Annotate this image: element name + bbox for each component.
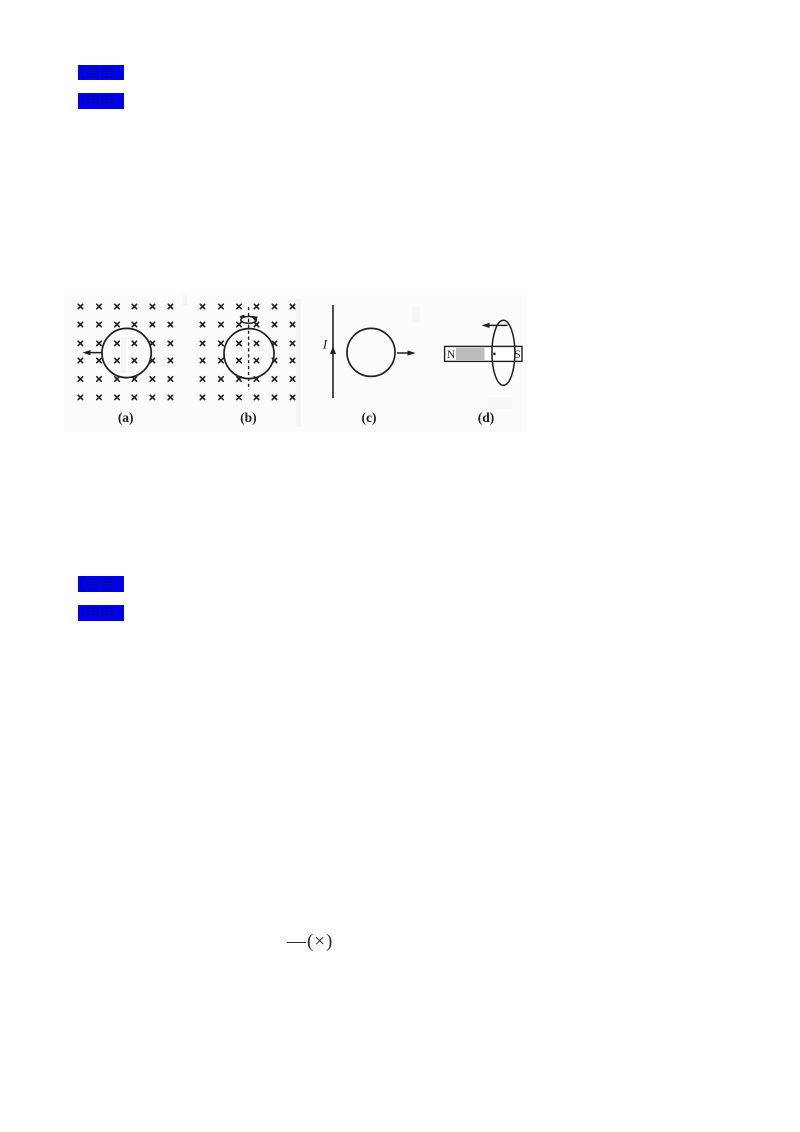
answer button 1 [78,65,124,80]
svg-text:(d): (d) [478,410,495,425]
svg-text:(b): (b) [240,410,257,425]
svg-text:I: I [322,337,328,352]
coil ellipse around magnet (d) [492,320,515,385]
field-into-page crosses, panel (b) [200,304,294,399]
physics figure [64,295,527,432]
conducting loop (c) [347,328,395,376]
magnet N-half shading [456,348,485,360]
velocity arrow (a), pointing left [83,350,103,355]
svg-text:N: N [447,349,456,361]
rotation axis dashed line (b) [248,307,250,390]
rotation arrow ellipse (b) [240,316,258,323]
field-into-page crosses, panel (a) [78,304,172,399]
conducting loop (b) [224,329,274,379]
svg-text:(a): (a) [118,410,134,425]
conducting loop (a) [102,328,151,377]
magnet centre dot [493,353,496,356]
bottom formula mark [287,931,341,953]
straight current wire (c) [332,305,334,398]
explain button 1 [78,576,124,592]
bar magnet body (d) [445,346,522,361]
svg-text:(c): (c) [362,410,377,425]
velocity arrow (c), pointing right [397,350,416,355]
motion arrow (d), pointing left [482,323,508,328]
scan blotches [121,295,512,427]
explain button 2 [78,605,124,621]
current direction arrowhead on wire (c) [330,346,336,354]
answer button 2 [78,93,124,109]
